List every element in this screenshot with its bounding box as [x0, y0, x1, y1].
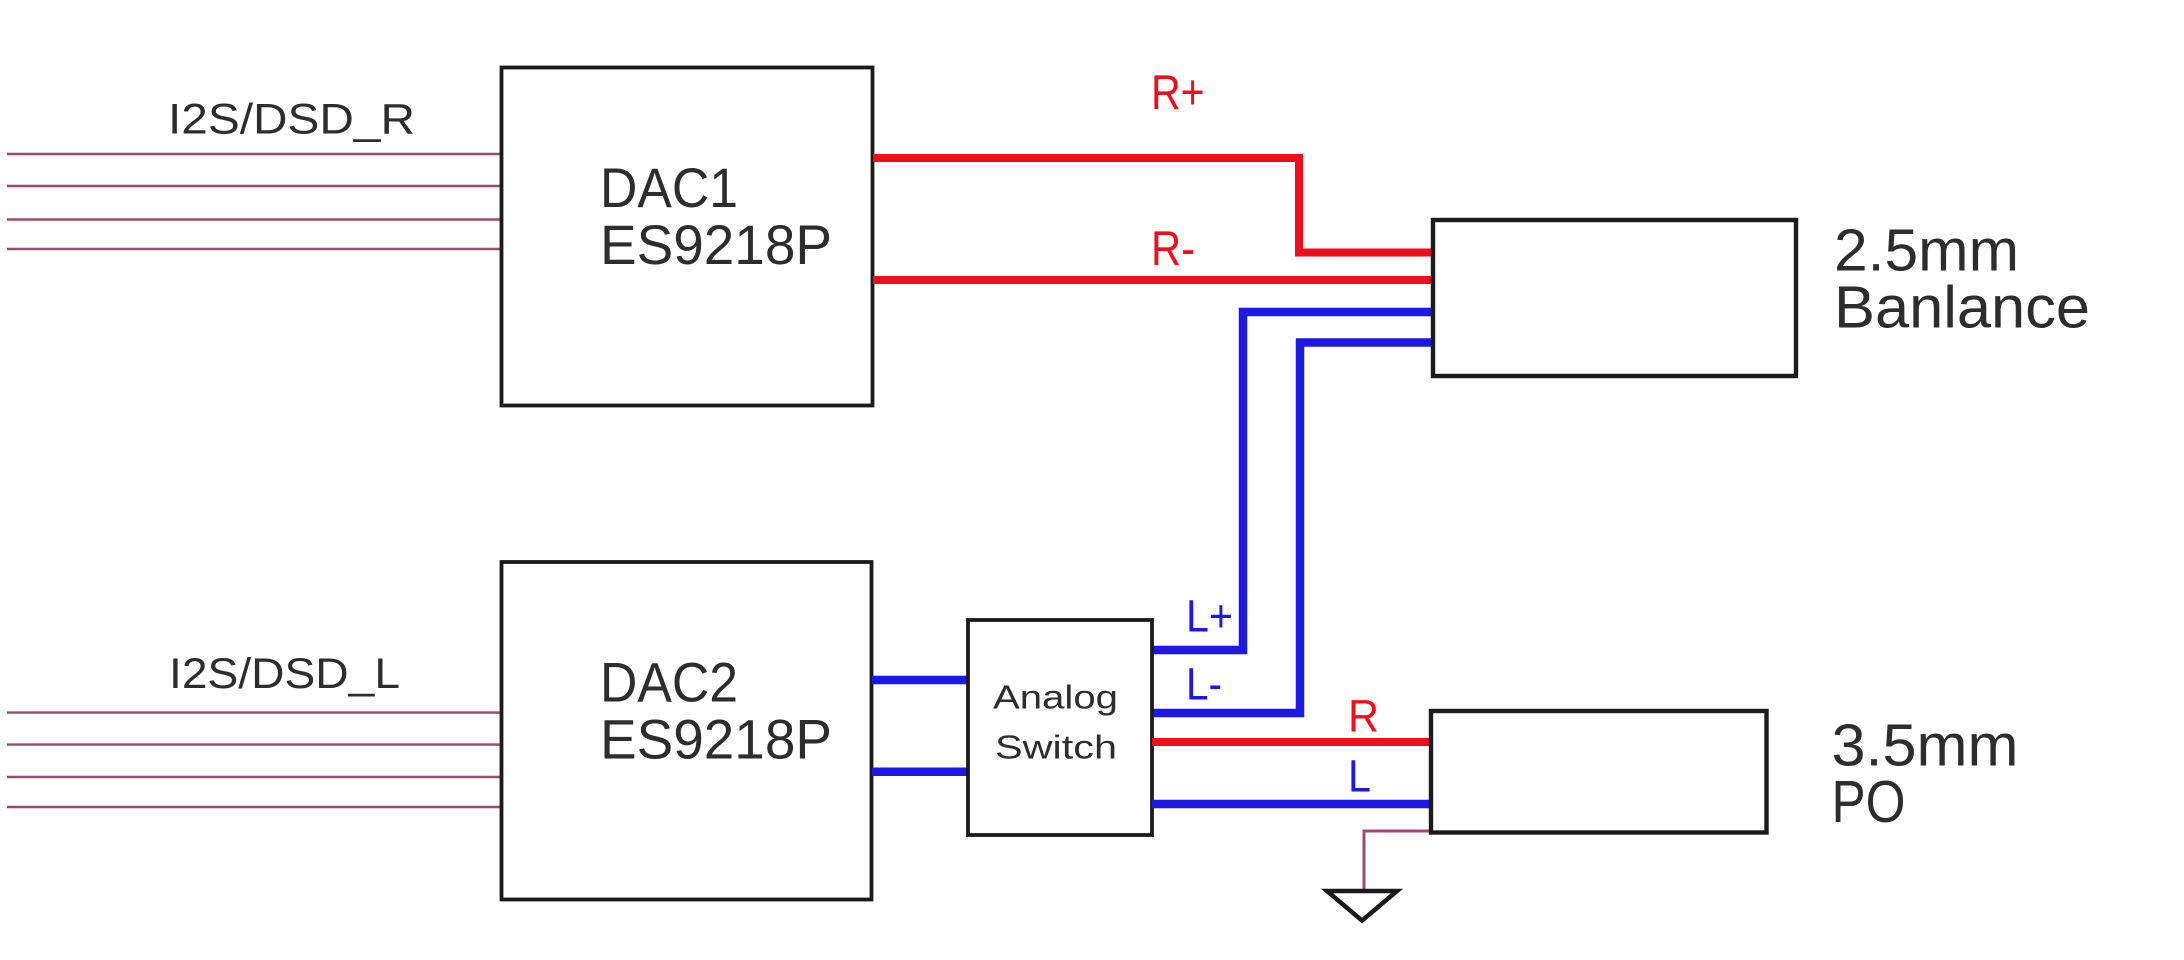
svg-text:I2S/DSD_R: I2S/DSD_R: [168, 96, 415, 144]
svg-text:DAC1: DAC1: [600, 156, 738, 219]
svg-text:R+: R+: [1151, 66, 1205, 120]
svg-text:R: R: [1348, 690, 1379, 741]
svg-text:Banlance: Banlance: [1834, 274, 2090, 340]
ground symbol: [1327, 891, 1397, 921]
svg-text:R-: R-: [1151, 222, 1195, 276]
svg-text:ES9218P: ES9218P: [600, 213, 832, 276]
svg-text:Switch: Switch: [995, 729, 1117, 766]
bus I2S/DSD_L (4 input lines): [7, 713, 500, 807]
svg-text:PO: PO: [1832, 769, 1906, 835]
DAC U1: DAC1 ES9218P: [502, 68, 873, 406]
svg-text:L-: L-: [1186, 658, 1222, 709]
wire L+ (switch to 2.5mm jack): [1152, 312, 1433, 650]
wire R- (DAC1 to 2.5mm jack): [873, 276, 1433, 284]
svg-text:Analog: Analog: [993, 679, 1118, 716]
DAC U2: DAC2 ES9218P: [502, 562, 872, 900]
wire R+ (DAC1 to 2.5mm jack): [873, 158, 1433, 253]
switch U3: Analog Switch: [968, 620, 1152, 835]
label 2.5mm Banlance: [1834, 218, 2090, 341]
wire DAC2 out A (to analog switch): [872, 676, 968, 685]
wire GND (3.5mm jack to ground): [1364, 831, 1429, 890]
connector J1: 2.5mm balance jack: [1433, 220, 1796, 376]
label 3.5mm PO: [1832, 713, 2019, 836]
svg-text:DAC2: DAC2: [600, 651, 738, 714]
connector J2: 3.5mm PO jack: [1431, 711, 1767, 833]
wire DAC2 out B (to analog switch): [872, 767, 968, 776]
bus I2S/DSD_R (4 input lines): [7, 154, 500, 249]
svg-text:ES9218P: ES9218P: [600, 708, 832, 771]
wire L (switch to 3.5mm jack): [1152, 800, 1433, 809]
svg-text:L+: L+: [1186, 590, 1233, 641]
wire L- (switch to 2.5mm jack): [1152, 343, 1433, 714]
svg-text:I2S/DSD_L: I2S/DSD_L: [169, 650, 400, 698]
svg-text:L: L: [1348, 750, 1371, 801]
wire R (switch to 3.5mm jack): [1152, 738, 1433, 746]
